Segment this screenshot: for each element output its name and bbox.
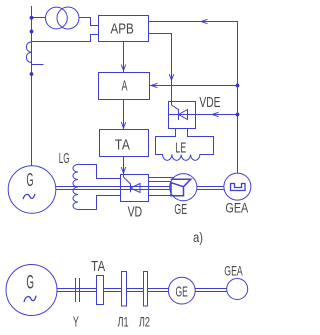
svg-text:LG: LG bbox=[59, 150, 70, 167]
svg-text:LE: LE bbox=[175, 140, 186, 157]
svg-text:G: G bbox=[27, 170, 34, 190]
svg-text:АРВ: АРВ bbox=[111, 22, 134, 38]
svg-text:ТА: ТА bbox=[115, 137, 130, 153]
svg-text:VDE: VDE bbox=[199, 95, 220, 111]
svg-text:а): а) bbox=[193, 229, 203, 245]
svg-text:GE: GE bbox=[174, 202, 187, 218]
svg-text:G: G bbox=[26, 272, 34, 293]
svg-text:ТА: ТА bbox=[91, 259, 105, 275]
svg-text:Y: Y bbox=[73, 314, 79, 331]
svg-text:Л1: Л1 bbox=[118, 314, 129, 330]
svg-text:GEA: GEA bbox=[225, 201, 248, 216]
svg-text:GE: GE bbox=[176, 285, 188, 301]
svg-text:А: А bbox=[122, 78, 128, 94]
svg-text:GEA: GEA bbox=[224, 262, 243, 278]
svg-text:VD: VD bbox=[128, 205, 143, 221]
svg-text:Л2: Л2 bbox=[139, 314, 150, 330]
